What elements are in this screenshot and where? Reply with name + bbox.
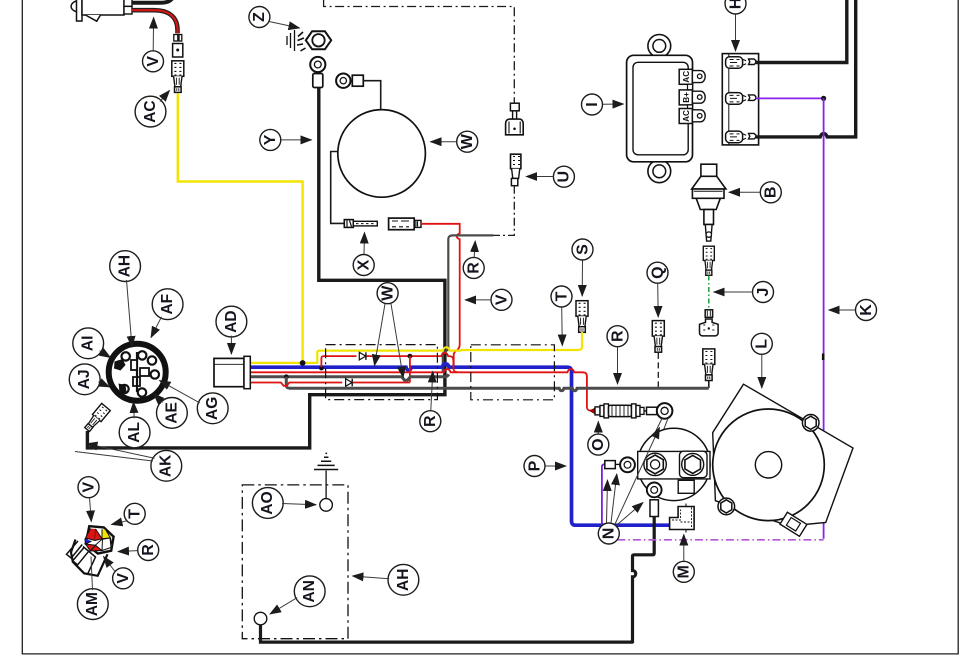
callout T (AM) [124,503,145,524]
svg-text:AF: AF [159,294,176,315]
spark-plug nut Z [287,30,331,51]
leader I [603,103,624,105]
wire green dash-dot J [708,276,710,310]
leader J [714,291,753,293]
terminal circle AN [254,612,267,625]
svg-text:Q: Q [649,266,666,278]
svg-text:W: W [379,285,396,301]
callout Y [260,129,281,150]
junction purple [821,96,826,101]
callout AH (module box) [388,564,419,595]
voltage regulator I [627,35,693,183]
callout N [598,523,619,544]
leader W [431,141,457,143]
leader B [729,191,760,193]
leader R [431,372,433,411]
svg-text:T: T [126,509,143,519]
wire grey long (engine harness) [289,388,709,391]
junction yellow [300,360,306,366]
leader V [152,18,154,51]
leader AG [160,381,200,403]
leader AI [100,351,111,358]
ring terminal Y [310,57,325,88]
leader K [829,309,856,311]
callout R (AM) [138,540,159,561]
svg-text:AE: AE [163,402,180,424]
svg-text:B: B [763,187,780,199]
leader AO [282,504,316,505]
callout K [856,300,877,321]
spade connector J chain bottom [703,349,715,381]
wire red after diode to junction and knot [367,353,458,372]
callout H [725,0,746,14]
svg-text:AC: AC [682,110,691,122]
wire blue main [251,364,670,525]
callout B [760,182,781,203]
ignition switch dash-dot circuit (top) [324,0,515,103]
svg-text:L: L [754,339,771,349]
solenoid small rect [678,480,694,493]
svg-text:M: M [676,565,693,578]
leader L [761,355,763,388]
svg-text:H: H [727,0,744,9]
svg-text:U: U [556,171,573,183]
leaders AK [87,444,155,459]
callout AO [252,488,283,519]
solenoid stud right (hex in square) [680,451,708,478]
connector S [576,301,588,333]
svg-text:B+: B+ [682,92,691,103]
callout X [353,255,374,276]
wire alternator to fuse [331,152,345,224]
callout AG [197,393,228,424]
tick on purple wire [822,354,825,361]
callout AD [216,306,247,337]
harness box 1 (dash-dot) [326,345,438,400]
spade connector (AC) [172,61,184,93]
connector pair J lower [700,310,719,336]
callout R (grey engine wire) [607,326,628,347]
leader AC [160,91,170,102]
wire grey row short (to R riser) [251,374,449,380]
leader U [526,176,553,178]
connector M (right-angle boot) [670,504,695,533]
diode 1 [357,352,368,360]
svg-text:I: I [584,102,601,106]
junction red [408,354,413,359]
svg-text:R: R [422,415,439,427]
svg-text:V: V [493,294,510,305]
harness box 2 (dash-dot) [471,345,555,400]
wire dashed below Q [657,353,659,388]
key switch connector [506,103,524,135]
ignition coil B [692,164,726,241]
callout T [551,286,572,307]
wire purple dash-dot bottom run [602,539,824,541]
svg-text:AI: AI [80,336,97,352]
svg-text:AN: AN [301,580,318,602]
wire purple P-branch to solenoid connector [602,464,606,540]
svg-text:AH: AH [395,569,412,591]
leader H [735,15,737,52]
starter lug bottom [780,512,807,536]
svg-text:AC: AC [142,100,159,122]
svg-text:R: R [609,330,626,342]
ring terminal at solenoid lower-left [647,483,662,517]
svg-text:V: V [80,482,97,493]
svg-text:AD: AD [223,310,240,332]
leader Y [281,139,312,141]
leader AN [270,598,297,614]
callout AH (connector cluster) [110,251,141,282]
svg-text:AH: AH [116,255,133,277]
connector AM (colored multi-pin) [67,526,114,576]
svg-text:V: V [145,56,162,67]
bullet connector U [511,154,521,186]
leader T [561,308,564,346]
leader AH [353,576,390,579]
ground symbol AO [314,453,338,498]
starter bracket (tilted plate) [713,384,853,526]
callout V (top) [143,51,164,72]
H terminal row 2 [726,93,756,105]
diode module (relay) [389,218,421,230]
starter bolt top right [802,415,819,432]
leader P [546,465,567,467]
wire red lower row with dip [251,383,342,386]
wire black from switch (cut at top) [132,0,174,3]
svg-text:W: W [459,133,476,149]
wire to alternator circle [363,81,380,110]
callout V (diode wire) [491,289,512,310]
leader S [581,261,583,297]
leader AJ [98,382,109,387]
bullet connector pair (V) [173,35,183,58]
wire yellow S to harness [461,332,582,350]
callout L [751,333,772,354]
callout W (harness diodes) [377,283,398,304]
fuse X [344,220,377,228]
wire black Y: ring terminal down, to right, down, left, down, left to AK [87,88,445,448]
svg-text:Y: Y [262,134,279,145]
svg-text:S: S [574,244,591,255]
callout U [553,166,574,187]
callout I [582,94,603,115]
callout AJ [69,364,100,395]
svg-text:P: P [526,460,543,471]
leader R [118,551,137,552]
svg-text:AG: AG [204,397,221,420]
wire black bottom run to AN [261,625,634,642]
svg-text:N: N [601,528,618,540]
engine oil-pressure switch (top-left, cut off) [71,0,132,21]
diode 2 [343,379,354,387]
grey branch down [286,377,289,388]
wire black ground from solenoid to engine [633,517,655,642]
connector block H [722,54,758,145]
junction grey [284,374,289,379]
svg-text:Z: Z [251,12,268,22]
regulator blade AC (bottom) [679,109,705,124]
leader M [683,535,685,561]
svg-text:T: T [553,291,570,301]
leader AL [133,402,136,418]
callout Z [249,7,270,28]
wire purple H row2 to K line [756,97,824,99]
connector AD [214,356,250,388]
leader R [474,241,475,257]
regulator blade B+ [679,90,705,111]
dash-dot wire below U [493,186,514,236]
callout J [753,282,774,303]
junction on blue [319,366,324,371]
svg-text:R: R [140,544,157,556]
wire purple K vertical [823,98,825,538]
leader O [597,422,599,434]
svg-text:K: K [858,304,875,316]
leader V [90,498,92,522]
leader AM [91,557,93,591]
leader R [617,347,619,384]
wire red row AD to O-drop [251,369,592,410]
callout AK [151,450,182,481]
callout V (AM red wire) [78,477,99,498]
wire AN terminal to ground run [260,625,262,642]
leader V [104,557,116,572]
solenoid body [638,428,710,500]
callout P [524,456,545,477]
round engine harness connector (AE-AL cluster) [109,344,166,401]
wire black H row3 to top (hop over purple) [756,0,856,137]
callout AC [135,96,166,127]
callout O [588,434,609,455]
svg-text:J: J [755,288,772,297]
wire red to bullet connector [132,10,178,33]
callout R (ignition wire) [463,257,484,278]
leader AF [151,317,162,338]
spade connector below coil [703,246,714,275]
small connector at solenoid (purple lead) [605,457,635,472]
spade connector AK (tilted) [83,403,110,433]
callout W (alternator) [457,131,478,152]
connector O inline [590,403,672,419]
leader Z [269,22,300,29]
wire red branch to diode (row 356) [321,356,357,367]
dashed box AH (ignition module area) [242,485,348,639]
callout AN [294,576,325,607]
red vertical inside box [409,356,411,382]
wire red lower row right part [353,382,410,384]
leader AE [154,394,163,403]
leaders W [375,304,386,366]
svg-text:O: O [590,438,607,450]
callout AF [152,289,183,320]
leaders N [611,474,617,523]
svg-text:V: V [115,573,132,584]
svg-text:AC: AC [682,71,691,83]
starter bolt bottom left [718,498,735,515]
leader AD [230,336,232,354]
leader lines from ring terminal O to solenoid stud [644,418,668,455]
wire to grey harness [708,381,710,389]
svg-text:X: X [356,259,373,270]
callout V (AM lower) [113,568,134,589]
alternator W (circle) [338,110,426,198]
callout R (harness) [420,411,441,432]
wire yellow harness (AD to S-branch, hop at black) [251,347,461,363]
callout Q [647,262,668,283]
callout AE [157,398,188,429]
callout AL [119,417,150,448]
svg-text:AK: AK [158,454,175,477]
solenoid stud left (hex) [644,453,666,475]
regulator blade AC (top) [679,69,705,90]
terminal circle AO [320,499,333,512]
wire red from diode module [421,224,460,366]
starter end cap L (big circle) [713,409,825,521]
svg-text:AO: AO [259,491,276,514]
leader AH [127,280,133,347]
callout AI [73,328,104,359]
callout AM [77,589,108,620]
svg-text:AM: AM [84,592,101,616]
wire R (grey) to harness [443,235,494,371]
leader Q [657,284,660,317]
leader T [112,521,127,525]
ring terminal at alternator lead [336,74,363,88]
leader V [465,299,491,301]
leader X [363,233,366,255]
svg-text:AL: AL [126,422,143,443]
yellow wire AC to harness [178,94,303,364]
svg-text:R: R [466,262,483,274]
svg-text:AJ: AJ [76,369,93,389]
H terminal row 1 [726,57,756,69]
callout M [673,561,694,582]
callout S [572,239,593,260]
connector Q [652,321,664,353]
wire black H row1 to top [756,0,847,63]
H terminal row 3 [726,131,756,143]
